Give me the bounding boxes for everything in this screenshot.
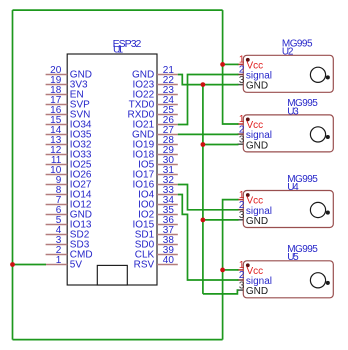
U1 pin 8 IO14 (left) — [46, 185, 92, 201]
U4 pin 1 Vcc — [237, 190, 263, 207]
svg-text:U2: U2 — [282, 47, 294, 58]
U1 pin 2 CMD (left) — [46, 245, 93, 261]
U1 pin 9 IO27 (left) — [46, 175, 92, 191]
wire IO4 pin33 to U5 signal — [178, 195, 239, 281]
wire GND jog to U5 GND — [203, 290, 239, 294]
wire IO16 pin32 to U4 signal — [178, 185, 239, 210]
U2 value label MG995 — [282, 39, 313, 50]
wire VCC bottom rail — [13, 339, 223, 341]
U1 pin 36 IO15 (right) — [133, 215, 178, 231]
U1 pin 5 IO13 (left) — [46, 215, 92, 231]
svg-text:U4: U4 — [287, 182, 299, 193]
U1 pin 11 IO25 (left) — [46, 155, 92, 171]
U1 pin 19 3V3 (left) — [46, 75, 88, 91]
U2 pin 1 Vcc — [237, 55, 263, 72]
wire IO21 pin26 to U2 signal — [178, 75, 239, 125]
svg-text:GND: GND — [246, 216, 268, 227]
U1 pin 24 TXD0 (right) — [129, 95, 178, 111]
svg-text:RSV: RSV — [134, 260, 155, 271]
svg-text:3: 3 — [239, 280, 245, 291]
svg-text:U3: U3 — [287, 106, 299, 117]
U4 pin-1 orientation dot — [246, 193, 250, 197]
U4 servo shaft symbol — [310, 202, 329, 217]
U3 pin-1 orientation dot — [246, 118, 250, 122]
U1 pin 14 IO35 (left) — [46, 125, 92, 141]
wire GND branch to U4 GND — [203, 219, 239, 221]
U2 pin-1 orientation dot — [246, 58, 250, 62]
U1 pin 21 GND (right) — [132, 65, 178, 81]
U3 value label MG995 — [287, 98, 318, 109]
svg-text:U1: U1 — [113, 44, 123, 56]
U5 reference designator — [287, 252, 299, 263]
U1 pin 33 IO4 (right) — [138, 185, 178, 201]
U5 pin 2 signal — [237, 270, 272, 287]
U4 pin 3 GND — [237, 210, 268, 227]
U1 pin 7 IO12 (left) — [46, 195, 92, 211]
U1 pin 25 RXD0 (right) — [128, 105, 178, 121]
U1 bottom notch — [97, 265, 127, 285]
wire VCC riser to U4 Vcc — [223, 200, 239, 340]
U2 pin 2 signal — [237, 65, 272, 82]
junction U2 Vcc — [220, 62, 225, 67]
U1 pin 17 SVP (left) — [46, 95, 91, 111]
U5 pin-1 orientation dot — [246, 263, 250, 267]
svg-text:3: 3 — [239, 210, 245, 221]
svg-text:U5: U5 — [287, 252, 299, 263]
servo U5 MG995 body — [243, 261, 333, 298]
U1 pin 10 IO26 (left) — [46, 165, 92, 181]
wire VCC top rail — [13, 9, 223, 11]
U1 pin 35 IO2 (right) — [138, 205, 178, 221]
U1 pin 6 GND (left) — [46, 205, 92, 221]
U1 pin 23 IO22 (right) — [133, 85, 178, 101]
junction U3 GND — [201, 142, 206, 147]
svg-text:GND: GND — [246, 140, 268, 151]
U5 pin 1 Vcc — [237, 260, 263, 277]
U3 reference designator — [287, 106, 299, 117]
U4 pin 2 signal — [237, 200, 272, 217]
wire VCC left rail — [12, 10, 14, 340]
svg-text:1: 1 — [56, 255, 62, 266]
U3 pin 3 GND — [237, 134, 268, 151]
wire GND pin21 to U2 GND — [178, 75, 239, 85]
U2 reference designator — [282, 47, 294, 58]
U3 servo shaft symbol — [310, 127, 329, 142]
wire pin27 to U3 signal — [178, 133, 239, 135]
U1 pin 4 SD2 (left) — [46, 225, 90, 241]
U5 pin 3 GND — [237, 280, 268, 297]
svg-text:40: 40 — [163, 255, 175, 266]
U1 pin 20 GND (left) — [46, 65, 92, 81]
U1 pin 38 SD0 (right) — [135, 235, 178, 251]
U5 servo shaft symbol — [310, 273, 329, 288]
U1 pin 12 IO33 (left) — [46, 145, 92, 161]
U1 pin 16 SVN (left) — [46, 105, 91, 121]
ESP32 module U1 body — [67, 54, 157, 285]
U1 pin 15 IO34 (left) — [46, 115, 92, 131]
U1 value label ESP32 — [113, 38, 142, 50]
U1 pin 27 GND (right) — [132, 125, 178, 141]
wire VCC drop to U3 Vcc — [223, 10, 239, 124]
U1 pin 28 IO19 (right) — [133, 135, 178, 151]
servo U4 MG995 body — [243, 191, 333, 228]
U1 pin 32 IO16 (right) — [133, 175, 178, 191]
U1 pin 18 EN (left) — [46, 85, 84, 101]
U1 pin 13 IO32 (left) — [46, 135, 92, 151]
U1 pin 22 IO23 (right) — [133, 75, 178, 91]
U1 reference designator U1 — [113, 44, 123, 56]
wire VCC branch to U5 Vcc — [223, 269, 239, 271]
servo U2 MG995 body — [243, 55, 333, 92]
U1 pin 34 IO0 (right) — [138, 195, 178, 211]
servo U3 MG995 body — [243, 115, 333, 152]
U1 pin 29 IO18 (right) — [133, 145, 178, 161]
U5 value label MG995 — [287, 244, 318, 255]
wire VCC link to U1 pin1 5V — [13, 264, 47, 266]
svg-text:5V: 5V — [70, 260, 83, 271]
U2 servo shaft symbol — [310, 67, 329, 82]
svg-text:3: 3 — [239, 134, 245, 145]
U1 pin 40 RSV (right) — [134, 255, 178, 271]
svg-text:3: 3 — [239, 75, 245, 86]
U3 pin 2 signal — [237, 124, 272, 141]
U1 pin 1 5V (left) — [46, 255, 83, 271]
U2 pin 3 GND — [237, 75, 268, 92]
U1 pin 26 IO21 (right) — [133, 115, 178, 131]
wire GND branch to U3 GND — [203, 144, 239, 146]
junction U5 Vcc — [220, 268, 225, 273]
wire VCC branch to U2 Vcc — [223, 63, 239, 65]
U1 pin 3 SD3 (left) — [46, 235, 90, 251]
junction 5V rail — [10, 262, 15, 267]
U4 reference designator — [287, 182, 299, 193]
junction U4 GND — [201, 218, 206, 223]
svg-text:GND: GND — [246, 81, 268, 92]
U1 pin 31 IO17 (right) — [133, 165, 178, 181]
wire GND bus vertical — [202, 85, 204, 294]
U1 pin 37 SD1 (right) — [135, 225, 178, 241]
U4 value label MG995 — [287, 174, 318, 185]
U1 pin 39 CLK (right) — [135, 245, 178, 261]
svg-text:GND: GND — [246, 286, 268, 297]
U3 pin 1 Vcc — [237, 114, 263, 131]
junction GND bus top — [201, 82, 206, 87]
U1 pin 30 IO5 (right) — [138, 155, 178, 171]
